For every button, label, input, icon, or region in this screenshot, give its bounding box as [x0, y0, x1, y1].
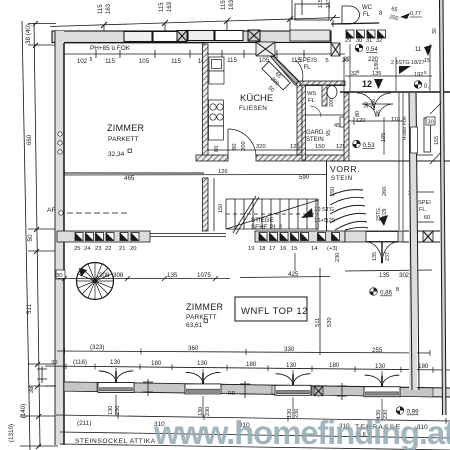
svg-text:63,61: 63,61 — [186, 322, 203, 329]
svg-text:FL: FL — [303, 65, 311, 71]
svg-text:0,77: 0,77 — [410, 11, 421, 17]
svg-text:32: 32 — [376, 38, 382, 44]
svg-text:180: 180 — [374, 61, 380, 70]
svg-text:21: 21 — [119, 246, 125, 252]
svg-text:12: 12 — [362, 79, 372, 89]
svg-text:320: 320 — [256, 144, 266, 150]
svg-text:22: 22 — [105, 246, 111, 252]
svg-text:511: 511 — [26, 303, 33, 314]
svg-text:FLIESEN: FLIESEN — [239, 105, 267, 112]
svg-text:10 STG: 10 STG — [314, 207, 334, 213]
svg-text:5: 5 — [357, 69, 360, 74]
svg-text:163: 163 — [167, 1, 173, 12]
svg-text:130: 130 — [197, 360, 208, 367]
svg-text:30: 30 — [428, 120, 434, 126]
svg-text:155: 155 — [434, 136, 440, 145]
svg-text:465: 465 — [124, 175, 135, 182]
svg-text:95: 95 — [376, 110, 382, 116]
svg-text:FL: FL — [308, 98, 316, 104]
svg-text:GARD.: GARD. — [306, 130, 325, 136]
svg-text:660: 660 — [26, 134, 33, 145]
svg-text:WS: WS — [307, 91, 316, 97]
svg-text:16+5|29: 16+5|29 — [314, 218, 335, 224]
svg-text:STEINSOCKEL ATTIKA: STEINSOCKEL ATTIKA — [75, 438, 156, 445]
svg-text:ZIMMER: ZIMMER — [107, 123, 144, 133]
svg-text:115: 115 — [159, 2, 165, 12]
svg-text:308: 308 — [113, 272, 124, 279]
svg-text:18: 18 — [259, 246, 265, 252]
svg-text:SPEIS: SPEIS — [299, 58, 318, 64]
svg-text:38 (40): 38 (40) — [25, 24, 32, 44]
svg-text:30: 30 — [51, 360, 57, 366]
svg-text:WC: WC — [362, 5, 373, 11]
svg-text:511: 511 — [315, 318, 321, 327]
svg-text:115: 115 — [221, 0, 227, 10]
svg-text:www.homefinding.at: www.homefinding.at — [153, 414, 450, 450]
svg-text:PARKETT: PARKETT — [108, 136, 139, 143]
svg-text:115: 115 — [171, 58, 181, 65]
svg-text:14: 14 — [311, 246, 318, 252]
svg-text:0,53: 0,53 — [363, 142, 376, 149]
svg-text:80: 80 — [214, 146, 220, 152]
svg-text:23: 23 — [95, 246, 101, 252]
svg-text:5: 5 — [325, 58, 328, 64]
svg-text:38: 38 — [28, 386, 35, 394]
svg-text:19: 19 — [248, 246, 254, 252]
svg-text:130: 130 — [286, 362, 297, 369]
svg-text:30: 30 — [56, 273, 62, 279]
svg-text:(1310): (1310) — [8, 424, 15, 442]
svg-text:PARKETT: PARKETT — [186, 314, 217, 321]
svg-text:150: 150 — [315, 144, 325, 150]
svg-text:130: 130 — [108, 406, 114, 415]
svg-text:590: 590 — [299, 175, 310, 181]
svg-text:180: 180 — [329, 362, 340, 369]
svg-text:260: 260 — [382, 187, 388, 196]
svg-text:180: 180 — [418, 363, 429, 370]
svg-text:WNFL TOP 12: WNFL TOP 12 — [241, 306, 308, 317]
svg-text:125: 125 — [290, 144, 300, 150]
svg-text:1075: 1075 — [197, 272, 211, 279]
svg-text:250: 250 — [330, 187, 336, 196]
svg-text:SPEI: SPEI — [418, 200, 431, 206]
svg-text:20: 20 — [130, 246, 136, 252]
svg-text:308: 308 — [99, 272, 110, 279]
svg-text:11: 11 — [415, 47, 422, 53]
svg-text:50: 50 — [27, 234, 34, 242]
svg-text:102: 102 — [77, 58, 88, 65]
svg-text:230: 230 — [335, 253, 341, 262]
svg-text:115: 115 — [105, 58, 115, 65]
svg-text:17: 17 — [269, 246, 275, 252]
svg-text:30: 30 — [432, 28, 438, 34]
svg-text:530: 530 — [327, 317, 333, 327]
svg-text:200: 200 — [329, 98, 335, 107]
svg-text:180: 180 — [246, 361, 257, 368]
svg-text:15: 15 — [291, 246, 297, 252]
svg-text:105: 105 — [139, 58, 150, 65]
svg-text:163: 163 — [106, 3, 112, 14]
svg-text:5: 5 — [90, 57, 93, 63]
svg-text:135: 135 — [379, 272, 390, 279]
svg-text:0,86: 0,86 — [380, 290, 393, 297]
svg-text:STEIN: STEIN — [331, 175, 353, 182]
svg-text:192: 192 — [414, 72, 423, 78]
svg-text:(+3): (+3) — [327, 246, 338, 252]
svg-text:25: 25 — [74, 246, 80, 252]
svg-text:STEIN: STEIN — [306, 137, 324, 143]
svg-text:150: 150 — [218, 204, 224, 213]
svg-text:95: 95 — [326, 130, 332, 136]
svg-text:130: 130 — [110, 359, 121, 366]
svg-text:45: 45 — [334, 123, 340, 129]
svg-text:115: 115 — [98, 4, 104, 14]
svg-text:15: 15 — [424, 58, 430, 64]
svg-text:(323): (323) — [90, 344, 104, 351]
svg-text:200: 200 — [241, 141, 247, 151]
svg-text:FL: FL — [363, 12, 371, 18]
svg-text:FL.: FL. — [419, 207, 428, 213]
svg-text:135: 135 — [167, 272, 178, 279]
svg-text:135: 135 — [372, 252, 378, 261]
svg-text:31: 31 — [366, 38, 372, 44]
svg-text:0,54: 0,54 — [366, 47, 378, 53]
svg-text:(140): (140) — [20, 404, 27, 419]
svg-text:206: 206 — [371, 99, 377, 108]
svg-text:130: 130 — [375, 363, 386, 370]
svg-text:255: 255 — [372, 347, 383, 354]
svg-text:20: 20 — [342, 58, 349, 64]
svg-text:110: 110 — [391, 117, 400, 123]
svg-text:(211): (211) — [77, 420, 91, 427]
svg-text:32,34: 32,34 — [108, 151, 125, 158]
svg-text:24: 24 — [84, 246, 91, 252]
svg-text:VORR.: VORR. — [330, 164, 360, 174]
svg-text:115: 115 — [227, 57, 237, 64]
svg-text:163: 163 — [229, 0, 235, 10]
svg-text:126: 126 — [218, 169, 228, 175]
svg-text:KÜCHE: KÜCHE — [240, 93, 273, 104]
svg-text:(116): (116) — [73, 359, 87, 366]
svg-text:180: 180 — [151, 360, 162, 367]
svg-text:425: 425 — [288, 271, 299, 278]
svg-text:STIEGE: STIEGE — [251, 217, 274, 224]
svg-text:237: 237 — [385, 252, 391, 261]
svg-text:16: 16 — [280, 246, 286, 252]
svg-text:330: 330 — [284, 346, 295, 353]
svg-text:PH+85 ü FOK: PH+85 ü FOK — [90, 45, 131, 52]
svg-text:80: 80 — [355, 111, 361, 117]
svg-text:RR: RR — [228, 391, 236, 397]
svg-text:80: 80 — [232, 144, 238, 150]
svg-text:SEHE PL.2: SEHE PL.2 — [251, 224, 283, 231]
svg-text:30: 30 — [356, 38, 362, 44]
svg-text:ZIMMER: ZIMMER — [186, 302, 223, 312]
svg-text:60: 60 — [424, 215, 430, 221]
svg-text:0,: 0, — [424, 84, 429, 90]
svg-text:360: 360 — [188, 345, 199, 352]
svg-text:5: 5 — [424, 70, 427, 75]
svg-text:29: 29 — [345, 38, 351, 44]
